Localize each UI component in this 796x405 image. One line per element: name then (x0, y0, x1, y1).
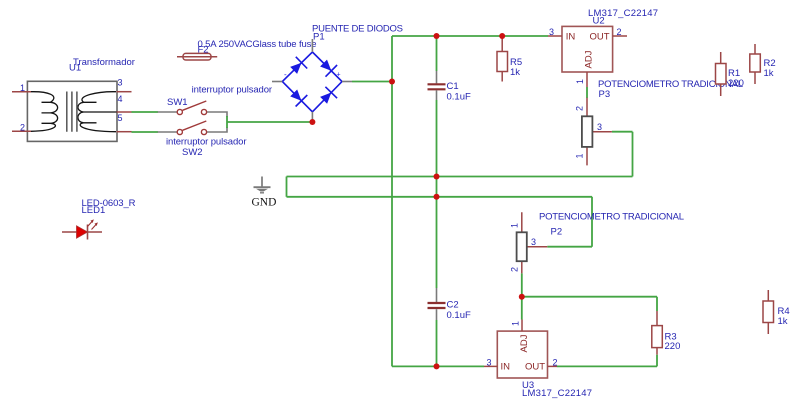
svg-text:C2: C2 (447, 300, 459, 311)
potentiometer P3 pin number 2 (575, 106, 585, 111)
transformer U1 pin 4 stub (117, 111, 132, 113)
resistor R4 value label (778, 316, 788, 327)
resistor R1 (716, 52, 727, 96)
potentiometer P2 name label (539, 212, 684, 223)
potentiometer P3 pin number 1 (575, 153, 585, 158)
svg-text:OUT: OUT (590, 32, 610, 43)
transformer U1 refdes label (69, 63, 81, 74)
op-amp U2 pin 2 stub (613, 35, 627, 37)
resistor R1 value label (728, 78, 744, 89)
wire capacitor column lower (436, 320, 438, 366)
op-amp U3 regulator LM317 (497, 331, 547, 378)
capacitor C1 refdes label (447, 81, 459, 92)
svg-text:1: 1 (575, 153, 585, 158)
svg-text:IN: IN (566, 32, 576, 43)
op-amp U2 pin 1 stub (586, 72, 588, 87)
wire capacitor column upper (436, 36, 438, 71)
svg-text:SW2: SW2 (182, 147, 203, 158)
svg-text:interruptor pulsador: interruptor pulsador (166, 137, 247, 148)
svg-text:3: 3 (597, 122, 602, 132)
transformer U1 pin number 1 (20, 83, 25, 93)
switch SW1 refdes label (167, 97, 188, 108)
resistor R2 (750, 44, 761, 84)
LED LED1 (62, 219, 102, 239)
op-amp U2 pin number 2 (617, 27, 622, 37)
svg-text:3: 3 (118, 78, 123, 88)
capacitor C1 (428, 71, 446, 100)
diode bridge P1 left stub (272, 81, 282, 83)
wire P2 pin2 to ADJ node (521, 273, 523, 296)
op-amp U2 pin 3 stub (548, 35, 562, 37)
svg-text:2: 2 (617, 27, 622, 37)
svg-text:+: + (337, 72, 341, 79)
svg-text:1k: 1k (764, 68, 774, 79)
wire switch output vertical (226, 116, 228, 128)
op-amp U2 regulator LM317 (562, 26, 613, 72)
potentiometer P2 (517, 212, 548, 273)
transformer U1 pin 5 stub (117, 131, 132, 133)
capacitor C1 value label (447, 92, 471, 103)
potentiometer P3 refdes label (599, 89, 611, 100)
svg-text:ADJ: ADJ (584, 50, 595, 68)
svg-text:0.5A 250VACGlass tube fuse: 0.5A 250VACGlass tube fuse (198, 39, 317, 50)
transformer U1 body (27, 81, 117, 141)
svg-text:1: 1 (511, 321, 521, 326)
junction C2 bottom rail (434, 363, 440, 369)
svg-text:0.1uF: 0.1uF (447, 92, 471, 103)
svg-text:U2: U2 (593, 16, 605, 27)
wire transformer pin5 to SW2 (132, 131, 159, 133)
potentiometer P2 refdes label (551, 227, 563, 238)
potentiometer P3 pin number 3 (597, 122, 602, 132)
junction bridge bottom (309, 119, 315, 125)
potentiometer P2 pin number 1 (510, 223, 520, 228)
wire bottom rail to P2 pin3 (547, 197, 592, 247)
svg-text:Transformador: Transformador (73, 57, 135, 68)
resistor R2 refdes label (764, 58, 776, 69)
svg-text:P1: P1 (313, 32, 325, 43)
resistor R3 (652, 311, 663, 355)
fuse F2 value label (198, 39, 317, 50)
svg-text:3: 3 (487, 358, 492, 368)
svg-text:3: 3 (549, 27, 554, 37)
wire capacitor column middle (436, 100, 438, 288)
wire ADJ node to R3 top (522, 297, 657, 311)
op-amp U3 pin 2 stub (548, 365, 558, 367)
op-amp U3 pin 1 stub (521, 320, 523, 332)
diode bridge P1 bottom stub (311, 112, 313, 121)
op-amp U3 name label (522, 388, 592, 399)
switch SW1 (158, 101, 227, 117)
svg-text:2: 2 (575, 106, 585, 111)
switch SW2 name label (166, 137, 247, 148)
diode bridge P1 (282, 52, 342, 112)
switch SW2 refdes label (182, 147, 203, 158)
resistor R4 refdes label (778, 306, 790, 317)
junction top rail (434, 174, 440, 180)
op-amp U2 pin number 3 (549, 27, 554, 37)
transformer U1 pin 1 stub (12, 91, 31, 93)
switch SW2 (158, 121, 227, 135)
transformer U1 pin 3 stub (117, 91, 132, 93)
potentiometer P2 pin number 3 (531, 237, 536, 247)
wire positive vertical rail (391, 36, 393, 366)
op-amp U3 pin number 1 (511, 321, 521, 326)
svg-text:C1: C1 (447, 81, 459, 92)
svg-text:2: 2 (510, 267, 520, 272)
transformer U1 pin 2 stub (12, 130, 31, 132)
transformer U1 pin number 4 (118, 94, 123, 104)
svg-text:LED1: LED1 (82, 205, 106, 216)
resistor R5 value label (510, 67, 520, 78)
wire ADJ node down to U3 (521, 297, 523, 320)
wire top rail to U2 IN (392, 35, 548, 37)
svg-text:P3: P3 (599, 89, 611, 100)
wire switches to bridge bottom (227, 121, 312, 123)
diode bridge P1 name label (312, 24, 403, 35)
transformer U1 pin number 5 (118, 113, 123, 123)
svg-text:POTENCIOMETRO TRADICIONAL: POTENCIOMETRO TRADICIONAL (539, 212, 684, 223)
ground (254, 177, 271, 193)
svg-text:F2: F2 (198, 45, 209, 56)
junction R5 top (499, 33, 505, 39)
svg-text:2: 2 (20, 123, 25, 133)
potentiometer P3 name label (598, 79, 743, 90)
wire bridge right output (352, 81, 392, 83)
ground net label GND (252, 197, 277, 209)
fuse F2 refdes label (198, 45, 209, 56)
wire common bottom rail (287, 196, 593, 198)
resistor R3 value label (665, 341, 681, 352)
LED LED1 refdes label (82, 205, 106, 216)
wire top rail to P3 pin3 (612, 132, 633, 177)
wire U2 ADJ to P3 pin2 (586, 87, 588, 98)
potentiometer P2 pin number 2 (510, 267, 520, 272)
resistor R5 refdes label (510, 57, 522, 68)
svg-text:ADJ: ADJ (519, 334, 530, 352)
svg-text:1k: 1k (778, 316, 788, 327)
svg-text:OUT: OUT (525, 362, 545, 373)
svg-text:SW1: SW1 (167, 97, 188, 108)
op-amp U2 refdes label (593, 16, 605, 27)
fuse F2 (177, 53, 217, 60)
LED LED1 name label (82, 198, 136, 209)
junction bridge output (389, 79, 395, 85)
op-amp U2 pin number 1 (575, 79, 585, 84)
op-amp U3 pin number 2 (553, 358, 558, 368)
svg-text:U1: U1 (69, 63, 81, 74)
diode bridge P1 right stub (342, 81, 352, 83)
wire common top rail (287, 176, 633, 178)
diode bridge P1 top stub (311, 39, 313, 52)
resistor R4 (763, 290, 774, 334)
op-amp U3 pin 3 stub (484, 365, 497, 367)
svg-text:P2: P2 (551, 227, 563, 238)
svg-text:GND: GND (252, 197, 277, 209)
svg-text:3: 3 (531, 237, 536, 247)
transformer U1 pin number 3 (118, 78, 123, 88)
svg-text:LM317_C22147: LM317_C22147 (522, 388, 592, 399)
wire rail left end vertical (286, 177, 288, 197)
junction ADJ node (519, 294, 525, 300)
potentiometer P3 (582, 98, 612, 166)
capacitor C2 (428, 288, 446, 320)
svg-text:0.1uF: 0.1uF (447, 310, 471, 321)
resistor R1 refdes label (728, 68, 740, 79)
junction bottom rail (434, 194, 440, 200)
op-amp U3 refdes label (522, 380, 534, 391)
svg-text:1: 1 (20, 83, 25, 93)
op-amp U3 pin number 3 (487, 358, 492, 368)
wire transformer pin4 to SW1 (132, 111, 159, 113)
wire U3 OUT to R3 bottom (557, 355, 657, 367)
svg-text:1: 1 (510, 223, 520, 228)
diode bridge P1 refdes label (313, 32, 325, 43)
svg-text:1k: 1k (510, 67, 520, 78)
svg-text:PUENTE DE DIODOS: PUENTE DE DIODOS (312, 24, 403, 35)
op-amp U2 name label (588, 8, 658, 19)
resistor R2 value label (764, 68, 774, 79)
resistor R3 refdes label (665, 332, 677, 343)
resistor R5 (497, 36, 508, 82)
transformer U1 name label (73, 57, 135, 68)
capacitor C2 refdes label (447, 300, 459, 311)
junction C1 top (434, 33, 440, 39)
svg-text:220: 220 (665, 341, 681, 352)
transformer U1 pin number 2 (20, 123, 25, 133)
capacitor C2 value label (447, 310, 471, 321)
switch SW1 name label (192, 85, 273, 96)
svg-text:220: 220 (728, 78, 744, 89)
svg-text:2: 2 (553, 358, 558, 368)
svg-text:5: 5 (118, 113, 123, 123)
svg-text:4: 4 (118, 94, 123, 104)
svg-text:1: 1 (575, 79, 585, 84)
wire bottom rail to U3 IN (392, 365, 484, 367)
svg-text:IN: IN (501, 362, 511, 373)
svg-text:interruptor pulsador: interruptor pulsador (192, 85, 273, 96)
svg-text:-: - (284, 70, 287, 79)
